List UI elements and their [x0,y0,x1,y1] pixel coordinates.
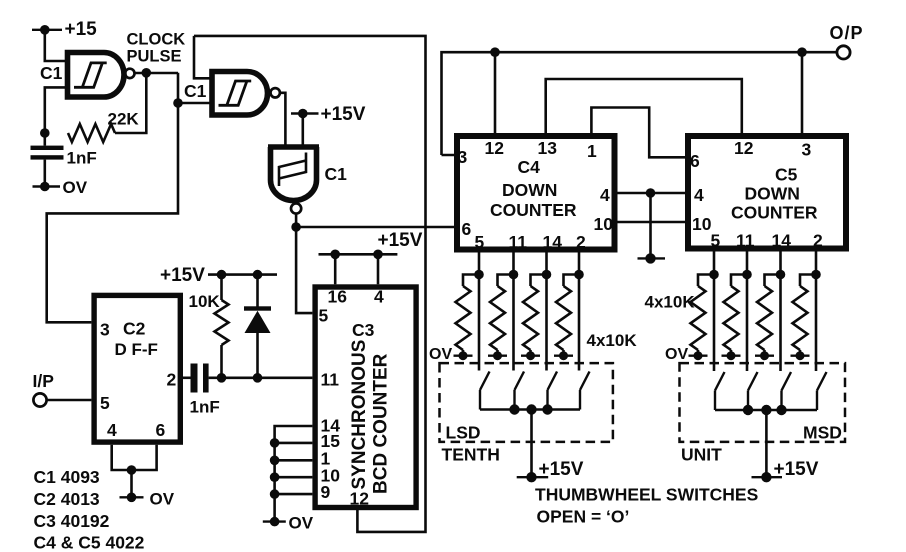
thumbwheel switch box LSD (dashed) [440,363,613,442]
ground OV terminal (C3 bus) [263,520,286,522]
svg-text:C3 40192: C3 40192 [34,511,110,531]
node 10K bottom junction [217,373,227,383]
output bubble U1A [125,69,134,78]
wire 22K to gate output [115,73,146,133]
wire common bar to +15V (MSD) [765,410,768,477]
wire U1C output to C4 pin 6 [296,226,454,229]
capacitor 1nF (osc) [31,146,64,150]
svg-text:C1 4093: C1 4093 [34,467,100,487]
power +15V rail above C3 [319,253,398,256]
thumbwheel switch box MSD (dashed) [680,363,846,442]
output bubble U1B [271,88,280,97]
node pin4 rail junction [646,188,656,198]
svg-text:10K: 10K [189,292,221,311]
wire U1C output node [295,214,298,227]
svg-text:4: 4 [600,185,610,205]
wire C5 pin 5 down to switch [713,252,716,372]
wire O/P rail with C4 pin 3 [442,52,837,155]
svg-text:3: 3 [100,320,110,340]
svg-text:12: 12 [350,489,370,509]
node diode top [253,270,263,280]
svg-text:C2: C2 [123,319,146,339]
wire C4 pin 2 down to switch [578,253,581,371]
svg-text:BCD COUNTER: BCD COUNTER [371,353,392,494]
nand gate U1B (C1 schmitt) [212,72,268,116]
wire U1B output to U1C input [280,93,286,147]
wire C4 pin 11 down to switch [512,253,515,371]
svg-text:+15V: +15V [378,230,423,251]
wire U1A output to node [135,72,179,75]
ground terminal R2 (LSD) [488,355,507,357]
svg-text:OV: OV [63,178,88,197]
svg-text:10: 10 [594,214,614,234]
svg-text:10: 10 [692,214,712,234]
svg-text:2: 2 [167,370,177,390]
wire C2 pin 2 to coupling cap [183,376,191,379]
switch S7 blade (MSD) [782,372,792,410]
svg-text:+15V: +15V [321,104,366,125]
switch S3 blade (LSD) [548,372,558,410]
wire C2 pins 4,6 commoned [112,445,157,470]
node bar S3 (LSD) [542,404,552,414]
ic C5 down counter box [688,136,846,249]
wire C4 pin 10 to C5 pin 10 [618,221,686,224]
node bus pin1 [270,456,280,466]
resistor R5 (4x10K MSD) [698,275,714,287]
svg-text:4: 4 [374,287,384,307]
wire U1C output to C3 pin 5 [296,227,312,313]
switch S5 blade (MSD) [715,372,725,410]
node diode bottom junction [253,373,263,383]
svg-text:OV: OV [665,346,688,363]
svg-text:COUNTER: COUNTER [490,200,577,220]
wire C5 pin 11 down to switch [746,252,749,372]
node pin 11 junction (MSD) [742,270,752,280]
ground OV terminal (C2) [120,496,144,498]
wire to OV (C2) [130,470,133,497]
node bus pin9 [270,489,280,499]
svg-text:I/P: I/P [33,371,55,391]
wire I/P to C2 pin 5 [47,399,92,402]
nand gate U1A (C1 schmitt) [68,53,125,98]
svg-text:11: 11 [509,232,528,252]
node bus pin10 [270,472,280,482]
wire common bar to +15V (LSD) [530,410,533,478]
svg-text:C4 & C5 4022: C4 & C5 4022 [34,533,145,552]
svg-text:CLOCK: CLOCK [127,31,186,49]
node bar S2 (LSD) [509,404,519,414]
svg-text:C1: C1 [325,164,348,184]
svg-text:5: 5 [100,393,110,413]
ground terminal R7 (MSD) [755,355,774,357]
svg-text:+15V: +15V [539,459,584,480]
wire cap to OV [43,160,46,187]
resistor R6 (4x10K MSD) [731,275,747,287]
node pins 4-6 junction [127,465,137,475]
diode D1 [256,275,259,309]
wire +15 to gate U1A top input [45,30,66,61]
wire C5 pin 2 down to switch [815,252,818,372]
svg-text:1: 1 [587,141,597,161]
node bar center (MSD) [761,405,771,415]
svg-text:11: 11 [736,231,755,251]
svg-text:6: 6 [690,151,700,171]
power +15V rail (10K/diode) [208,273,277,276]
ic C2 D F-F box [94,295,180,442]
svg-text:+15V: +15V [774,459,819,480]
svg-text:4x10K: 4x10K [587,331,638,350]
ic C3 synchronous BCD counter box [315,287,416,508]
node RC junction [40,128,50,138]
svg-text:4: 4 [694,185,704,205]
svg-text:C4: C4 [518,157,541,177]
wire C4 pin 14 down to switch [545,253,548,371]
ground terminal R8 (MSD) [791,355,810,357]
svg-text:14: 14 [772,231,792,251]
svg-text:LSD: LSD [446,423,481,443]
wire C4 pin 13 to C5 pin 12 [546,79,742,133]
svg-text:9: 9 [321,482,331,502]
svg-text:5: 5 [711,231,721,251]
resistor R7 (4x10K MSD) [765,275,781,287]
ground OV terminal (osc) [33,185,61,187]
switch S1 blade (LSD) [480,372,490,410]
power +15V terminal (LSD) [517,476,549,478]
wire cap to C3 pin 11 [209,376,313,379]
node pin 2 junction (LSD) [574,270,584,280]
output O/P terminal [837,46,850,59]
svg-text:4x10K: 4x10K [645,293,696,312]
output bubble U1C [291,203,301,213]
node bar center (LSD) [526,404,536,414]
svg-text:OPEN = ‘O’: OPEN = ‘O’ [537,507,630,527]
switch S4 blade (LSD) [580,372,590,410]
ground terminal R1 (LSD) [454,355,473,357]
resistor R4 (4x10K LSD) [564,275,580,287]
switch S8 blade (MSD) [817,372,827,410]
wire clock node down to U1B input [178,73,212,103]
wire U1A bottom input to RC node [45,87,66,133]
schmitt symbol U1A [74,63,107,87]
wire switch common bar (MSD) [715,409,817,412]
svg-text:COUNTER: COUNTER [731,203,818,223]
svg-text:1nF: 1nF [190,398,220,417]
node C4 pin12 junction [490,47,500,57]
node bar S6 (MSD) [743,405,753,415]
svg-text:TENTH: TENTH [442,445,500,465]
wire RC node to cap [43,133,46,146]
node pin 5 junction (MSD) [709,270,719,280]
svg-text:UNIT: UNIT [681,445,722,465]
svg-text:5: 5 [475,232,485,252]
svg-text:C1: C1 [40,63,63,83]
svg-text:DOWN: DOWN [745,184,800,204]
node pin 14 junction (LSD) [542,270,552,280]
svg-text:THUMBWHEEL SWITCHES: THUMBWHEEL SWITCHES [535,485,758,505]
node bar S7 (MSD) [776,405,786,415]
resistor R3 (4x10K LSD) [531,275,547,287]
resistor 22K [68,124,115,142]
terminal stub (carry) [638,257,666,259]
resistor 10K [220,275,223,300]
wire O/P junction down to C5 pin 3 [801,52,804,133]
svg-text:DOWN: DOWN [502,180,557,200]
svg-text:13: 13 [538,138,558,158]
power +15V terminal (MSD) [752,476,783,478]
svg-text:OV: OV [150,490,175,509]
svg-text:22K: 22K [108,110,140,129]
power +15 terminal [32,29,62,31]
node pin 5 junction (LSD) [474,270,484,280]
svg-text:+15: +15 [65,19,98,40]
power +15V terminal at U1C input [291,114,319,148]
node 10K top [217,270,227,280]
node pin 14 junction (MSD) [776,270,786,280]
svg-text:C2 4013: C2 4013 [34,489,100,509]
capacitor 1nF (coupling) [191,364,198,393]
svg-text:SYNCHRONOUS: SYNCHRONOUS [349,340,370,490]
wire switch common bar (LSD) [480,408,580,411]
svg-text:6: 6 [462,219,472,239]
resistor R8 (4x10K MSD) [800,275,816,287]
svg-text:5: 5 [319,306,329,326]
wire pin4 junction down to terminal [649,193,652,258]
svg-text:14: 14 [543,232,563,252]
svg-text:12: 12 [734,138,754,158]
wire C4 pin 12 up to O/P rail [494,52,497,133]
svg-text:6: 6 [156,420,166,440]
node U1C output junction [291,222,301,232]
node gate1 output junction [142,68,152,78]
wire C4 pin 5 down to switch [478,253,481,371]
node bus pin15 [270,438,280,448]
svg-text:2: 2 [576,232,586,252]
svg-text:+15V: +15V [160,265,205,286]
svg-text:3: 3 [802,140,812,160]
wire feedback node down to C2 pin 3 [47,103,178,322]
nand gate U1C (C1 schmitt, inverter to +15V) [268,147,319,200]
wire C3 pin 4 to +15V [377,254,380,284]
ground terminal R3 (LSD) [521,355,540,357]
switch S2 blade (LSD) [515,372,525,410]
svg-text:16: 16 [328,287,348,307]
svg-text:12: 12 [485,138,505,158]
svg-text:4: 4 [107,420,117,440]
switch S6 blade (MSD) [748,372,758,410]
resistor R2 (4x10K LSD) [498,275,514,287]
svg-text:O/P: O/P [830,23,864,43]
svg-text:1nF: 1nF [67,149,97,168]
wire U1B top input to feedback rail [194,36,212,78]
wire C4 pin 4 to C5 pin 4 [618,192,686,195]
node O/P junction [797,47,807,57]
wire C4 pin 1 to C5 pin 6 [591,108,685,158]
input I/P terminal [33,393,46,406]
svg-text:MSD: MSD [803,423,842,443]
resistor R1 (4x10K LSD) [463,275,479,287]
node pin 11 junction (LSD) [509,270,519,280]
ground terminal R4 (LSD) [554,355,573,357]
svg-text:11: 11 [321,370,340,390]
wire feedback rail to C3 pin 12 [194,36,426,532]
wire C3 unused input bus pins 14,15,1,10,9 [275,426,313,522]
svg-text:OV: OV [289,514,314,533]
svg-text:C1: C1 [184,81,207,101]
wire C5 pin 14 down to switch [779,252,782,372]
ic C4 down counter box [457,136,615,250]
schmitt symbol U1B [219,81,252,105]
ground terminal R6 (MSD) [722,355,741,357]
svg-text:OV: OV [429,346,452,363]
wire C3 pin 16 to +15V [334,254,337,284]
svg-text:3: 3 [458,147,468,167]
svg-text:2: 2 [813,231,823,251]
svg-text:C3: C3 [352,320,375,340]
svg-text:PULSE: PULSE [127,48,182,66]
svg-text:C5: C5 [775,165,798,185]
svg-text:D F-F: D F-F [115,340,158,359]
node pin 2 junction (MSD) [811,270,821,280]
ground terminal R5 (MSD) [689,355,708,357]
schmitt symbol U1C [279,153,306,187]
node U1B input junction [173,98,183,108]
